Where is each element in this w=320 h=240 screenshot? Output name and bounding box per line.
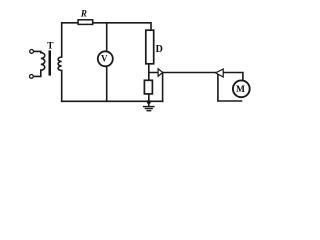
svg-text:T: T [47,42,54,52]
svg-text:M: M [236,85,245,95]
svg-text:D: D [156,44,163,55]
svg-text:V: V [101,53,108,63]
svg-text:R: R [80,8,87,18]
